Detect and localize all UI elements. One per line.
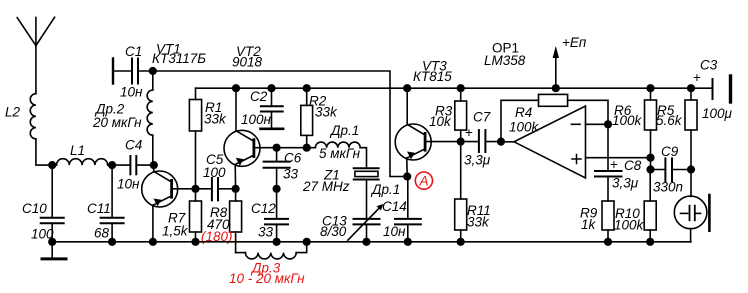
- svg-text:5 мкГн: 5 мкГн: [319, 146, 361, 161]
- svg-text:33k: 33k: [315, 105, 338, 120]
- node C12 bottom: [273, 239, 280, 246]
- node noninverting input on R6 leg: [647, 154, 654, 161]
- inductor L1: [52, 143, 112, 165]
- svg-text:+: +: [465, 125, 473, 140]
- svg-text:33k: 33k: [204, 112, 227, 127]
- supply +En arrow: [553, 35, 587, 88]
- svg-text:C11: C11: [87, 201, 111, 216]
- svg-text:33k: 33k: [467, 215, 490, 230]
- resistor R9: [580, 201, 614, 242]
- svg-text:C6: C6: [284, 151, 302, 166]
- resistor R6: [612, 88, 657, 169]
- svg-text:C8: C8: [624, 158, 642, 173]
- svg-text:C12: C12: [251, 201, 276, 216]
- svg-text:10 - 20 мкГн: 10 - 20 мкГн: [229, 271, 305, 286]
- wire inverting input: [586, 123, 609, 125]
- label VT1: [152, 42, 206, 67]
- resistor R2: [301, 88, 338, 148]
- svg-text:C10: C10: [22, 201, 47, 216]
- inductor Dr.2: [92, 71, 153, 165]
- svg-text:100k: 100k: [612, 113, 643, 128]
- node L2/L1/C10: [49, 162, 56, 169]
- inductor Dr.1: [315, 123, 366, 168]
- svg-text:27 MHz: 27 MHz: [302, 179, 350, 194]
- svg-text:+: +: [610, 157, 618, 172]
- node R5 top on rail: [688, 85, 695, 92]
- resistor R1: [189, 88, 227, 189]
- svg-text:C2: C2: [250, 89, 268, 104]
- svg-text:L1: L1: [70, 143, 85, 158]
- node +En on rail: [553, 85, 560, 92]
- svg-text:+: +: [693, 70, 701, 85]
- svg-text:C7: C7: [473, 110, 491, 125]
- svg-text:100н: 100н: [241, 112, 272, 127]
- node VT2 base / C6: [273, 144, 280, 151]
- node L1/C11: [109, 162, 116, 169]
- resistor R3: [429, 88, 467, 141]
- node C11 bottom: [109, 239, 116, 246]
- node R7 bottom: [192, 239, 199, 246]
- resistor R5: [656, 88, 697, 169]
- node VT3 base / R3 / C7 / R11: [457, 138, 464, 145]
- capacitor C3: [693, 58, 733, 122]
- node Dr.3 right / ground rail: [303, 239, 310, 246]
- node A red circle: [415, 172, 432, 189]
- capacitor C14: [383, 177, 421, 242]
- node C4/Dr2/VT1 collector: [151, 162, 158, 169]
- capacitor C12: [251, 189, 288, 242]
- wire L2 bottom to node: [36, 139, 52, 165]
- capacitor C1: [113, 44, 153, 100]
- svg-text:С14: С14: [382, 199, 407, 214]
- svg-text:+Еп: +Еп: [562, 35, 587, 50]
- resistor R10: [614, 170, 656, 242]
- svg-text:10н: 10н: [383, 224, 406, 239]
- node R11 bottom: [457, 239, 464, 246]
- crystal Z1: [302, 168, 379, 219]
- svg-text:68: 68: [94, 226, 110, 241]
- capacitor C13 trimmer: [320, 204, 383, 242]
- transistor VT3: [395, 88, 461, 176]
- svg-text:10н: 10н: [120, 85, 143, 100]
- svg-text:5.6k: 5.6k: [656, 113, 683, 128]
- resistor R4 feedback: [501, 94, 608, 141]
- node R6 bottom / C9 / R10: [647, 166, 654, 173]
- svg-text:КТ815: КТ815: [413, 69, 452, 84]
- svg-text:Др.1: Др.1: [370, 182, 400, 197]
- antenna WA1: [17, 17, 54, 94]
- svg-text:КТ3117Б: КТ3117Б: [152, 51, 206, 66]
- node VT1 emitter/ground: [150, 239, 157, 246]
- resistor R7: [162, 189, 202, 242]
- node R6 top on rail: [647, 85, 654, 92]
- svg-text:9018: 9018: [232, 55, 263, 70]
- capacitor C11: [87, 165, 124, 242]
- capacitor C5: [196, 152, 236, 200]
- svg-text:C1: C1: [125, 44, 142, 59]
- svg-text:100: 100: [203, 165, 226, 180]
- node R10 bottom: [647, 239, 654, 246]
- resistor R8: [207, 189, 242, 253]
- node C13 bottom: [363, 239, 370, 246]
- svg-text:А: А: [419, 174, 429, 189]
- inductor Dr.3: [229, 242, 307, 286]
- node C6 bottom / emitter line: [273, 186, 280, 193]
- label VT2: [232, 44, 263, 70]
- svg-text:33: 33: [258, 225, 274, 240]
- node inverting input: [605, 121, 612, 128]
- ground: [42, 242, 66, 259]
- node C10 / ground rail: [49, 239, 56, 246]
- node VT2 collector on rail: [233, 85, 240, 92]
- capacitor C10: [22, 165, 64, 242]
- svg-text:100k: 100k: [509, 120, 540, 135]
- wire noninverting input: [586, 157, 651, 159]
- transistor VT2: [224, 88, 277, 189]
- node R9 bottom: [605, 239, 612, 246]
- ground rail: [52, 241, 691, 243]
- capacitor C2 with ground: [241, 88, 283, 129]
- microphone BM1: [674, 170, 709, 242]
- svg-text:10н: 10н: [117, 177, 140, 192]
- svg-text:8/30: 8/30: [320, 224, 347, 239]
- svg-text:R4: R4: [515, 105, 532, 120]
- op-amp OP1: [484, 41, 586, 179]
- resistor R11: [455, 142, 491, 242]
- node VT3 collector on rail: [404, 85, 411, 92]
- svg-text:330n: 330n: [653, 180, 683, 195]
- svg-text:100μ: 100μ: [702, 106, 733, 121]
- node C9 right / R5 / mic: [688, 166, 695, 173]
- svg-text:C4: C4: [125, 138, 142, 153]
- capacitor C9: [651, 144, 692, 195]
- capacitor C6: [264, 148, 302, 189]
- svg-text:1k: 1k: [581, 217, 597, 232]
- node C2 on rail: [268, 85, 275, 92]
- node C14 bottom: [405, 239, 412, 246]
- svg-text:LM358: LM358: [484, 53, 526, 68]
- svg-text:Др.1: Др.1: [329, 123, 359, 138]
- node op-amp output: [498, 138, 505, 145]
- capacitor C7: [461, 110, 501, 168]
- node R2 on rail: [303, 85, 310, 92]
- inductor L2: [5, 94, 36, 139]
- label VT3: [413, 59, 452, 85]
- svg-text:3,3μ: 3,3μ: [612, 176, 639, 191]
- svg-text:C3: C3: [700, 58, 718, 73]
- node R3 on rail: [457, 85, 464, 92]
- mid supply rail: [196, 87, 712, 89]
- node C1/top rail/Dr2: [150, 68, 157, 75]
- svg-text:L2: L2: [5, 105, 21, 120]
- svg-text:3,3μ: 3,3μ: [464, 153, 491, 168]
- capacitor C8: [595, 124, 642, 201]
- node VT2 emitter/R8: [232, 186, 239, 193]
- svg-text:100k: 100k: [614, 218, 645, 233]
- svg-text:20 мкГн: 20 мкГн: [92, 115, 142, 130]
- svg-text:33: 33: [283, 167, 299, 182]
- svg-text:1,5k: 1,5k: [162, 224, 189, 239]
- wire base line: [277, 147, 316, 149]
- transistor VT1: [142, 165, 196, 242]
- input terminal: [112, 59, 114, 84]
- top rail wire to node A: [153, 71, 407, 177]
- svg-text:10k: 10k: [429, 114, 452, 129]
- node A junction: [404, 173, 411, 180]
- node VT1 base/R1/R7/C5: [192, 186, 199, 193]
- node R2 bottom / Dr.1: [303, 144, 310, 151]
- capacitor C4: [112, 138, 154, 192]
- svg-text:C9: C9: [661, 144, 679, 159]
